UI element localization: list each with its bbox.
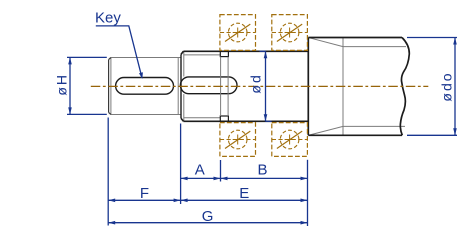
svg-text:E: E xyxy=(239,185,249,202)
svg-text:F: F xyxy=(140,185,149,202)
svg-text:ød: ød xyxy=(248,73,264,93)
svg-text:A: A xyxy=(195,162,205,179)
svg-text:B: B xyxy=(257,162,267,179)
svg-text:øH: øH xyxy=(54,73,70,96)
svg-text:Key: Key xyxy=(95,9,121,26)
svg-text:G: G xyxy=(202,208,214,225)
svg-text:ødo: ødo xyxy=(438,71,454,101)
